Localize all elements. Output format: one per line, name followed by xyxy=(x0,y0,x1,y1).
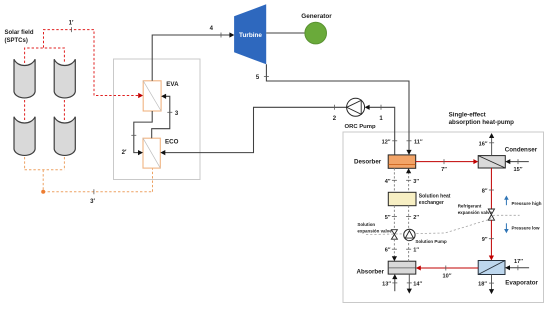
svg-text:17′′: 17′′ xyxy=(514,259,524,265)
tick node 1'' xyxy=(406,248,411,250)
refrigerant expansion valve xyxy=(488,209,494,220)
svg-text:14′′: 14′′ xyxy=(413,282,423,288)
arrow into condenser (net 7'') xyxy=(473,159,478,164)
wire: red net 10'' evaporator to absorber xyxy=(419,267,478,269)
arrow into EVA right (net 3) xyxy=(161,94,166,99)
svg-text:4′′: 4′′ xyxy=(385,179,391,185)
tick node 9'' xyxy=(489,238,494,240)
svg-text:Desorber: Desorber xyxy=(354,159,382,166)
wire: desorber to ORC pump (net 12''/1) xyxy=(368,107,395,155)
svg-text:6′′: 6′′ xyxy=(385,248,391,254)
arrow down (net 14'') xyxy=(407,289,412,294)
tick node 1 xyxy=(380,105,382,110)
svg-text:Single-effect: Single-effect xyxy=(449,111,486,118)
svg-text:1′′: 1′′ xyxy=(413,248,419,254)
pressure boundary dashed line xyxy=(366,215,520,234)
wire: turbine to generator shaft xyxy=(266,32,305,34)
wire: dashed net 2'' pump to SHX xyxy=(408,206,410,230)
svg-text:(SPTCs): (SPTCs) xyxy=(5,38,28,44)
svg-text:8′′: 8′′ xyxy=(482,189,488,195)
ORC pump P xyxy=(347,98,365,116)
wire: net 5 turbine exhaust to desorber xyxy=(266,64,409,151)
arrow into desorber top (net 11'') xyxy=(406,150,411,155)
svg-text:Solar field: Solar field xyxy=(5,30,34,36)
tick node 5'' xyxy=(392,216,397,218)
arrow down (net 18'') xyxy=(489,289,494,294)
wire: hot oil red dashed net 1' xyxy=(25,30,140,121)
arrow into absorber right (net 10'') xyxy=(416,266,421,271)
tick node 14'' xyxy=(407,282,412,284)
tick node 10'' xyxy=(445,266,447,271)
svg-text:3′: 3′ xyxy=(90,199,95,205)
arrow into evaporator top (net 9'') xyxy=(489,256,494,261)
tick node 3'' xyxy=(406,179,411,181)
generator G xyxy=(305,22,327,44)
arrow up into desorber (net 3'') xyxy=(406,168,411,173)
arrow into condenser right (net 15'') xyxy=(505,159,510,164)
wire: dashed net 4'' desorber to SHX xyxy=(393,168,395,192)
wire: net 4 EVA top to turbine xyxy=(152,35,231,81)
wire: red net 7'' desorber to condenser xyxy=(416,161,475,163)
arrow into EVA (oil 1') xyxy=(138,93,143,98)
svg-text:16′′: 16′′ xyxy=(479,141,489,147)
solar collector 3 (bottom-left) xyxy=(14,117,35,156)
wire: net 15'' condenser right inlet xyxy=(509,161,529,163)
label solution expansion valve xyxy=(357,222,392,234)
wire: net 17'' evaporator right inlet xyxy=(509,267,530,269)
ORC loop enclosure box xyxy=(114,59,201,180)
evaporator E xyxy=(478,261,505,275)
heat exchanger EVA xyxy=(143,81,161,111)
pressure low indicator xyxy=(504,223,540,233)
svg-text:Turbine: Turbine xyxy=(239,32,262,39)
svg-text:EVA: EVA xyxy=(166,81,179,88)
tick node 3 xyxy=(167,111,172,113)
arrow down into absorber (net 6'') xyxy=(392,256,397,261)
svg-text:2′′: 2′′ xyxy=(413,215,419,221)
svg-text:11′′: 11′′ xyxy=(414,139,423,145)
svg-text:Generator: Generator xyxy=(301,13,332,20)
tick node 17'' xyxy=(517,265,519,270)
wire: net 18'' evaporator bottom outlet xyxy=(491,275,493,291)
tick node 13'' xyxy=(392,282,397,284)
wire: net 16'' condenser top outlet xyxy=(491,137,493,156)
svg-text:7′′: 7′′ xyxy=(441,167,447,173)
heat exchanger ECO xyxy=(143,138,160,168)
tick node 4'' xyxy=(392,179,397,181)
arrow up (net 16'') xyxy=(489,133,494,138)
svg-text:Pressure low: Pressure low xyxy=(512,225,541,230)
pressure high indicator xyxy=(504,196,542,206)
absorber A xyxy=(388,261,416,274)
tick node 8'' xyxy=(489,189,494,191)
svg-text:absorption heat-pump: absorption heat-pump xyxy=(449,119,515,126)
solution heat exchanger SHX xyxy=(388,192,416,205)
junction dot 3' xyxy=(41,190,45,194)
svg-text:13′′: 13′′ xyxy=(382,282,392,288)
tick node 3' xyxy=(93,189,95,194)
arrow up into absorber (net 13'') xyxy=(392,274,397,279)
tick node 4 xyxy=(220,33,222,38)
svg-text:Solution: Solution xyxy=(357,222,375,227)
svg-text:1′: 1′ xyxy=(69,21,74,27)
arrow into evaporator right (net 17'') xyxy=(505,265,510,270)
wire: dashed net 1'' absorber to pump xyxy=(408,241,410,262)
svg-text:12′′: 12′′ xyxy=(382,139,392,145)
svg-text:Solution heat: Solution heat xyxy=(419,194,451,200)
wire: dashed net 6'' valve to absorber xyxy=(393,239,395,258)
condenser C xyxy=(478,156,505,168)
svg-text:Evaporator: Evaporator xyxy=(505,280,538,287)
tick node 18'' xyxy=(489,282,494,284)
svg-text:3′′: 3′′ xyxy=(413,179,419,185)
svg-text:expansión valve: expansión valve xyxy=(458,210,493,215)
svg-text:15′′: 15′′ xyxy=(514,167,524,173)
svg-text:Refrigerant: Refrigerant xyxy=(458,204,482,209)
wire: net 13'' absorber bottom inlet xyxy=(394,278,396,292)
turbine T xyxy=(234,4,266,64)
label: Solar field (SPTCs) xyxy=(5,30,34,44)
desorber D xyxy=(388,155,416,168)
svg-text:exchanger: exchanger xyxy=(419,200,444,206)
wire: red net 9'' valve to evaporator xyxy=(490,220,492,257)
svg-text:Solution Pump: Solution Pump xyxy=(415,239,447,244)
arrow into ORC pump (net 1) xyxy=(365,105,370,110)
wire: cold oil orange dashed net 3' xyxy=(25,157,153,192)
label refrigerant expansion valve xyxy=(458,204,493,215)
tick node 2' xyxy=(131,134,136,136)
svg-text:2′: 2′ xyxy=(122,150,127,156)
tick node 1' xyxy=(71,27,73,32)
tick node 11'' xyxy=(407,140,412,142)
svg-text:5′′: 5′′ xyxy=(385,215,391,221)
wire: net 14'' absorber bottom outlet xyxy=(408,274,410,290)
solar collector 2 (top-right) xyxy=(54,59,75,98)
arrow into ECO left (net 2') xyxy=(138,150,143,155)
svg-text:10′′: 10′′ xyxy=(443,274,453,280)
solar collector 4 (bottom-right) xyxy=(54,117,75,156)
solution expansion valve xyxy=(391,230,397,240)
svg-text:Pressure high: Pressure high xyxy=(512,201,542,206)
wire: net 3 ECO top to EVA right xyxy=(152,96,170,138)
wire: net 2' EVA bottom to ECO left xyxy=(134,111,152,153)
arrow into ECO right (net 2) xyxy=(160,150,165,155)
wire: dashed net 5'' SHX to solution valve xyxy=(393,206,395,230)
solution pump SP xyxy=(404,229,415,240)
wire: red net 8'' condenser to expansion valve xyxy=(490,168,492,209)
svg-text:expansión valve: expansión valve xyxy=(357,229,392,234)
solar collector 1 (top-left) xyxy=(14,59,35,98)
tick node 16'' xyxy=(489,142,494,144)
svg-text:ORC Pump: ORC Pump xyxy=(345,124,376,130)
absorption heat-pump enclosure box xyxy=(343,132,544,303)
svg-text:ECO: ECO xyxy=(165,139,179,146)
svg-text:Absorber: Absorber xyxy=(357,269,385,276)
tick node 5 xyxy=(264,75,269,77)
tick node 7'' xyxy=(443,159,445,164)
arrow into turbine (net 4) xyxy=(229,32,234,37)
wire: dashed net 3'' SHX to desorber xyxy=(408,172,410,192)
tick node 15'' xyxy=(517,159,519,164)
svg-text:Condenser: Condenser xyxy=(505,146,538,153)
svg-text:9′′: 9′′ xyxy=(482,237,488,243)
label Solution heat exchanger xyxy=(419,194,451,206)
label heat-pump title xyxy=(449,111,515,126)
tick node 2 xyxy=(333,105,335,110)
svg-text:18′′: 18′′ xyxy=(478,282,488,288)
tick node 12'' xyxy=(392,140,397,142)
tick node 6'' xyxy=(392,248,397,250)
wire: ORC pump to ECO right (net 2) xyxy=(164,107,347,152)
tick node 2'' xyxy=(406,216,411,218)
